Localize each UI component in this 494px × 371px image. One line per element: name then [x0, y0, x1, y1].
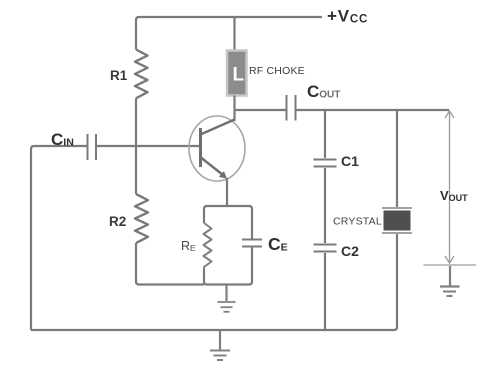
base bar — [199, 128, 202, 167]
resistor R2 — [135, 194, 148, 243]
wire top rail to +Vcc — [139, 16, 322, 18]
Vout measurement arrow line — [445, 111, 454, 263]
emitter stroke — [202, 158, 226, 177]
wire choke branch from rail — [233, 17, 235, 51]
svg-text:C1: C1 — [341, 153, 359, 169]
crystal X1 — [382, 208, 412, 233]
resistor R1 — [135, 50, 148, 99]
collector stroke — [202, 120, 235, 135]
svg-text:C2: C2 — [341, 243, 359, 259]
svg-text:CRYSTAL: CRYSTAL — [333, 216, 382, 228]
svg-text:L: L — [233, 65, 245, 86]
resistor RE — [204, 223, 212, 270]
wire C2 to bottom rail — [324, 253, 326, 330]
wire reference line at Vout bottom — [424, 264, 477, 266]
capacitor C2 — [314, 245, 337, 252]
capacitor CIN — [88, 134, 97, 160]
capacitor C1 branch upper wire — [324, 110, 326, 158]
capacitor CE — [242, 240, 262, 247]
svg-text:R1: R1 — [110, 68, 128, 83]
ground right below Vout — [440, 266, 460, 296]
wire emitter lead — [226, 178, 228, 206]
transistor Q1 — [189, 116, 245, 181]
wire base wire — [96, 145, 199, 147]
capacitor COUT — [287, 95, 296, 121]
wire R1 bottom to base junction to R2 top — [135, 98, 137, 194]
capacitor C1 — [314, 160, 337, 167]
wire emitter network box top and right upper — [204, 206, 252, 239]
wire bottom rail — [31, 329, 394, 331]
wire crystal lower to bottom rail — [394, 234, 397, 330]
inductor L (RF choke) — [227, 51, 247, 96]
wire R2 bottom to emitter network — [136, 243, 204, 285]
wire input left segment — [31, 146, 87, 330]
svg-text:RF CHOKE: RF CHOKE — [249, 65, 305, 77]
wire R1 branch top — [136, 17, 139, 50]
ground below bottom rail — [210, 330, 230, 360]
wire choke bottom to collector — [233, 96, 235, 122]
wire crystal branch upper — [396, 110, 398, 207]
ground below emitter network — [218, 285, 236, 312]
svg-text:R2: R2 — [109, 214, 126, 229]
transistor body circle — [189, 116, 245, 181]
wire collector to Cout — [235, 109, 287, 111]
emitter arrowhead — [219, 171, 227, 179]
wire emitter network right lower and bottom — [204, 248, 252, 285]
wire output rail — [296, 109, 450, 111]
wire C1 to C2 — [324, 168, 326, 243]
